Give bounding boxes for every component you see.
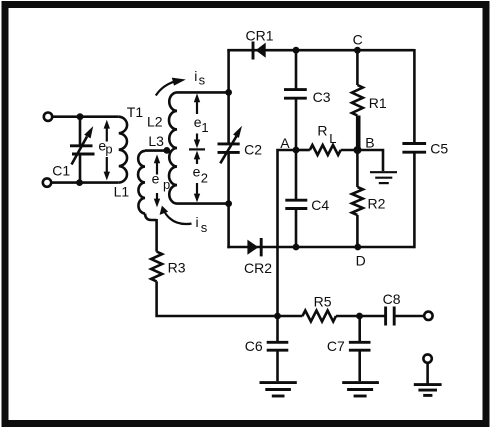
resistor R3 — [151, 252, 162, 282]
wire L3 top to tap — [145, 149, 169, 152]
svg-text:R5: R5 — [314, 294, 332, 310]
node bottom-left junction — [76, 179, 83, 186]
svg-text:CR1: CR1 — [246, 27, 274, 43]
ground below C6 — [260, 383, 297, 396]
wire CR column upper — [227, 49, 230, 144]
svg-text:C5: C5 — [430, 141, 448, 157]
wire B to R2 — [356, 150, 359, 187]
svg-text:C6: C6 — [245, 338, 263, 354]
node A — [293, 147, 300, 154]
svg-text:i: i — [194, 68, 197, 84]
svg-text:C2: C2 — [244, 141, 262, 157]
svg-text:B: B — [365, 134, 374, 150]
wire CR column lower — [227, 152, 230, 248]
wire L3 bottom tail — [145, 214, 157, 221]
svg-text:D: D — [356, 253, 366, 269]
svg-text:1: 1 — [201, 120, 208, 135]
capacitor C3 — [284, 50, 307, 150]
svg-text:CR2: CR2 — [244, 260, 272, 276]
wire top input — [53, 115, 119, 118]
node secondary bottom junction — [225, 200, 232, 207]
diode CR1 — [253, 42, 266, 60]
svg-text:T1: T1 — [127, 104, 144, 120]
e1 arrows — [189, 93, 205, 149]
output terminal — [424, 312, 432, 320]
svg-text:A: A — [280, 135, 290, 151]
node secondary top junction — [225, 89, 232, 96]
node D — [354, 244, 361, 251]
wire C to R1 — [356, 50, 359, 85]
i_s arrow top — [156, 78, 186, 96]
inductor L2 (secondary winding) — [169, 92, 177, 203]
capacitor C6 — [267, 316, 289, 381]
svg-text:e: e — [152, 171, 160, 187]
resistor RL wire A-B — [296, 149, 310, 152]
node rail-C7 junction — [356, 313, 363, 320]
svg-text:2: 2 — [201, 171, 208, 186]
node C3 top junction — [293, 47, 300, 54]
svg-text:p: p — [163, 177, 170, 192]
wire RL to B — [341, 149, 358, 152]
e_p arrows (primary voltage) — [104, 120, 110, 181]
svg-text:L3: L3 — [148, 133, 164, 149]
svg-text:L2: L2 — [147, 113, 163, 129]
svg-text:C8: C8 — [383, 291, 401, 307]
svg-text:C3: C3 — [313, 89, 331, 105]
node C4-D junction — [293, 244, 300, 251]
svg-text:C4: C4 — [311, 197, 329, 213]
capacitor C5 — [402, 49, 426, 248]
wire R1 to B (bold) — [356, 116, 361, 151]
svg-text:C7: C7 — [327, 338, 345, 354]
capacitor C2 (variable) — [218, 126, 243, 164]
capacitor C1 (variable) — [70, 117, 95, 183]
svg-text:C: C — [353, 31, 363, 47]
svg-text:i: i — [196, 214, 199, 230]
resistor R2 — [352, 187, 363, 215]
D wire (bottom) — [227, 246, 414, 249]
ground below C7 — [342, 383, 379, 396]
inductor L1 (primary winding) — [119, 117, 127, 183]
node B — [354, 146, 362, 154]
node C — [354, 47, 361, 54]
input terminal bottom — [43, 178, 51, 186]
capacitor C7 — [349, 316, 371, 381]
input terminal top — [44, 113, 52, 121]
svg-text:e: e — [193, 164, 201, 180]
capacitor C8 — [386, 307, 425, 326]
svg-text:R3: R3 — [168, 260, 186, 276]
e2 arrows — [194, 151, 200, 203]
wire A to left rail down — [278, 150, 297, 316]
svg-text:C1: C1 — [52, 162, 70, 178]
node top-left junction — [77, 113, 84, 120]
top wire — [227, 49, 414, 52]
node L2 center tap — [163, 147, 170, 154]
svg-text:s: s — [201, 220, 208, 235]
e_p arrows (tertiary) — [154, 154, 160, 207]
svg-text:L1: L1 — [114, 183, 130, 199]
svg-text:R: R — [317, 122, 327, 138]
wire R2 to D — [356, 215, 359, 247]
ground terminal bottom right — [414, 354, 442, 395]
wire R5 to C8 — [336, 315, 386, 318]
wire secondary bottom — [177, 202, 229, 205]
svg-text:R2: R2 — [368, 196, 386, 212]
wire bottom input — [52, 181, 119, 184]
svg-text:p: p — [105, 142, 112, 157]
wire L3 to R3 — [155, 219, 158, 252]
inductor L3 (tertiary winding) — [138, 151, 145, 214]
resistor R5 — [303, 311, 337, 322]
svg-text:s: s — [199, 73, 206, 88]
wire R3 down to rail — [157, 281, 303, 316]
resistor RL — [310, 145, 341, 155]
diode CR2 — [247, 238, 261, 256]
resistor R1 — [352, 85, 363, 116]
svg-text:R1: R1 — [369, 95, 387, 111]
i_s arrow bottom — [160, 206, 192, 224]
capacitor C4 — [285, 150, 307, 247]
node rail-A junction — [274, 313, 281, 320]
svg-text:L: L — [329, 131, 336, 146]
ground at B — [357, 150, 397, 183]
wire secondary top — [177, 91, 229, 94]
